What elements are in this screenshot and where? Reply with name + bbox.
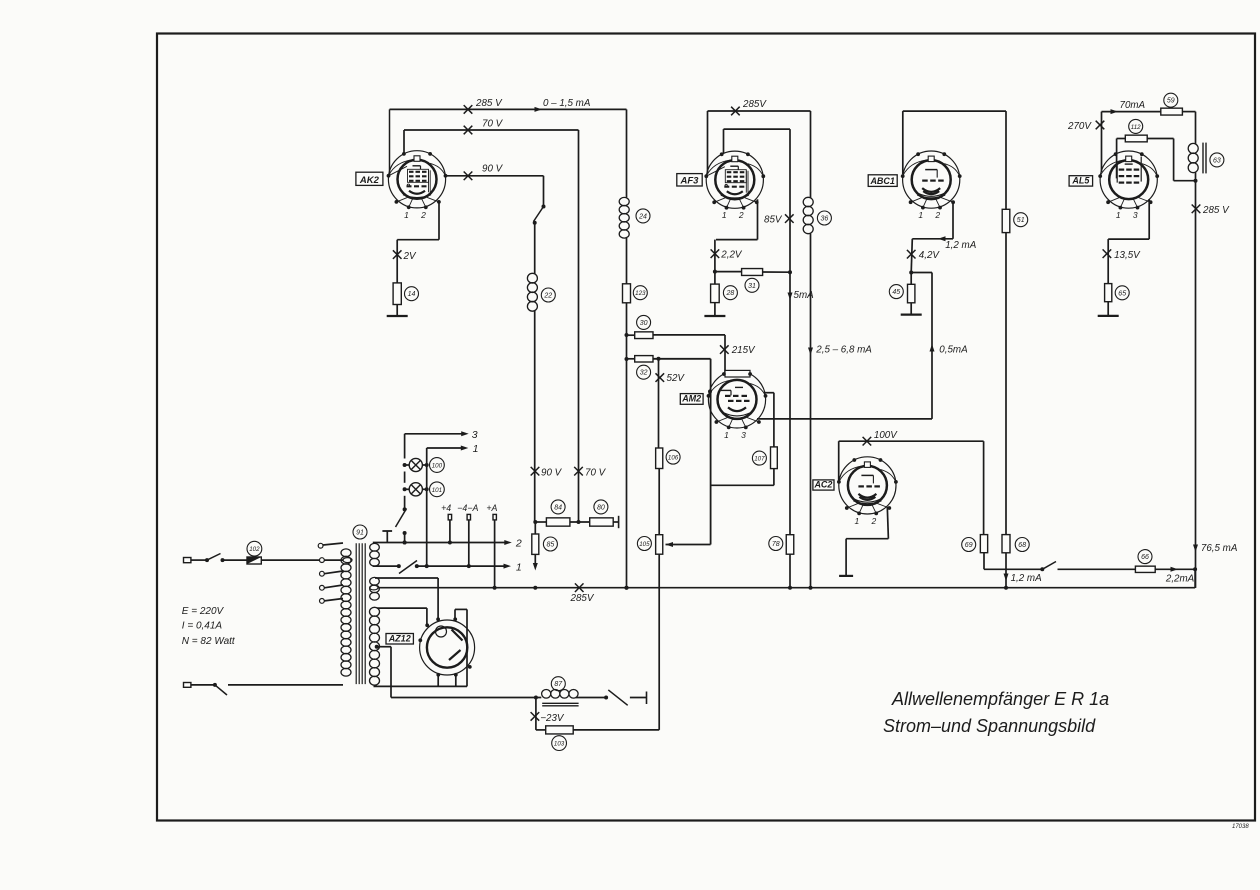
svg-text:66: 66 <box>1141 554 1149 561</box>
svg-text:Allwellenempfänger E R 1a: Allwellenempfänger E R 1a <box>891 689 1109 709</box>
svg-text:87: 87 <box>554 681 563 688</box>
svg-text:4,2V: 4,2V <box>919 250 941 261</box>
svg-text:70 V: 70 V <box>482 119 504 130</box>
svg-text:2: 2 <box>871 516 877 526</box>
svg-text:215V: 215V <box>731 345 756 356</box>
svg-text:2: 2 <box>420 210 426 220</box>
svg-text:3: 3 <box>1133 210 1138 220</box>
svg-text:1: 1 <box>1116 210 1121 220</box>
svg-text:112: 112 <box>1131 124 1141 131</box>
svg-text:285 V: 285 V <box>1202 205 1230 216</box>
svg-text:14: 14 <box>408 291 416 298</box>
svg-text:1,2 mA: 1,2 mA <box>1011 573 1043 584</box>
svg-text:5mA: 5mA <box>794 290 815 301</box>
svg-text:51: 51 <box>1017 217 1025 224</box>
svg-text:+4: +4 <box>441 503 451 513</box>
svg-text:N = 82 Watt: N = 82 Watt <box>182 636 236 647</box>
svg-text:1,2 mA: 1,2 mA <box>945 240 977 251</box>
svg-text:80: 80 <box>597 504 605 511</box>
svg-text:22: 22 <box>543 293 552 300</box>
svg-text:1: 1 <box>855 516 860 526</box>
svg-text:91: 91 <box>356 530 364 537</box>
svg-text:285 V: 285 V <box>475 98 503 109</box>
svg-text:1: 1 <box>724 430 729 440</box>
svg-text:17038: 17038 <box>1232 824 1249 830</box>
svg-text:3: 3 <box>472 429 478 441</box>
svg-text:270V: 270V <box>1067 121 1092 132</box>
svg-text:45: 45 <box>892 289 900 296</box>
svg-text:52V: 52V <box>667 373 686 384</box>
svg-text:285V: 285V <box>570 593 595 604</box>
svg-text:31: 31 <box>748 283 756 290</box>
svg-text:63: 63 <box>1213 157 1221 164</box>
svg-text:32: 32 <box>640 370 648 377</box>
svg-text:85: 85 <box>547 542 555 549</box>
svg-text:1: 1 <box>918 210 923 220</box>
svg-text:2: 2 <box>934 210 940 220</box>
svg-text:2V: 2V <box>403 251 417 262</box>
svg-text:84: 84 <box>554 504 562 511</box>
svg-text:ABC1: ABC1 <box>869 176 895 186</box>
svg-text:68: 68 <box>1018 542 1026 549</box>
svg-text:1: 1 <box>404 210 409 220</box>
svg-text:103: 103 <box>554 741 565 748</box>
svg-text:70mA: 70mA <box>1120 100 1146 111</box>
svg-text:70 V: 70 V <box>585 468 607 479</box>
svg-text:3: 3 <box>741 430 746 440</box>
svg-text:100: 100 <box>432 463 443 470</box>
svg-text:I = 0,41A: I = 0,41A <box>182 621 223 632</box>
svg-text:AZ12: AZ12 <box>388 633 411 643</box>
svg-text:2: 2 <box>738 210 744 220</box>
svg-text:2,5 – 6,8 mA: 2,5 – 6,8 mA <box>815 345 872 356</box>
svg-text:69: 69 <box>965 542 973 549</box>
svg-text:24: 24 <box>638 213 647 220</box>
svg-text:90 V: 90 V <box>482 164 504 175</box>
svg-text:76,5 mA: 76,5 mA <box>1201 543 1238 554</box>
svg-text:AL5: AL5 <box>1071 176 1090 186</box>
svg-text:102: 102 <box>249 546 260 553</box>
svg-text:2: 2 <box>515 538 522 550</box>
svg-text:101: 101 <box>432 487 442 494</box>
svg-text:AK2: AK2 <box>359 175 380 186</box>
svg-text:90 V: 90 V <box>541 468 563 479</box>
svg-text:30: 30 <box>640 320 648 327</box>
svg-text:0 – 1,5 mA: 0 – 1,5 mA <box>543 98 591 109</box>
svg-text:85V: 85V <box>764 215 783 226</box>
svg-text:285V: 285V <box>742 99 767 110</box>
svg-text:AM2: AM2 <box>681 394 701 404</box>
svg-text:E = 220V: E = 220V <box>182 606 225 617</box>
svg-text:100V: 100V <box>874 430 898 441</box>
svg-text:105: 105 <box>639 541 650 548</box>
svg-text:106: 106 <box>668 455 679 462</box>
svg-text:+A: +A <box>486 503 497 513</box>
svg-text:−23V: −23V <box>540 713 565 724</box>
svg-text:1: 1 <box>722 210 727 220</box>
svg-text:65: 65 <box>1118 290 1126 297</box>
svg-text:78: 78 <box>772 541 780 548</box>
svg-text:2,2V: 2,2V <box>720 250 743 261</box>
svg-text:Strom–und Spannungsbild: Strom–und Spannungsbild <box>883 716 1096 736</box>
svg-text:123: 123 <box>635 290 646 297</box>
svg-text:2,2mA: 2,2mA <box>1165 574 1195 585</box>
svg-text:1: 1 <box>473 443 479 455</box>
svg-text:−4−A: −4−A <box>457 503 478 513</box>
svg-text:1: 1 <box>516 562 522 574</box>
svg-text:AF3: AF3 <box>680 175 700 186</box>
svg-text:0,5mA: 0,5mA <box>939 345 968 356</box>
svg-text:28: 28 <box>726 290 735 297</box>
svg-text:13,5V: 13,5V <box>1114 250 1141 261</box>
svg-text:AC2: AC2 <box>813 480 832 490</box>
svg-text:36: 36 <box>821 216 829 223</box>
svg-text:59: 59 <box>1167 98 1175 105</box>
svg-text:107: 107 <box>754 456 765 463</box>
